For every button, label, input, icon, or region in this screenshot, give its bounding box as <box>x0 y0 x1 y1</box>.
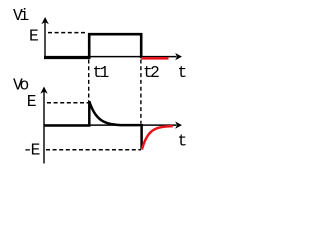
Vi t-axis arrowhead <box>175 53 182 60</box>
Vo waveform: zero, positive spike at t1 with exponential decay, zero, negative step at t2 <box>44 101 142 149</box>
dashed vertical at t2 <box>140 60 142 124</box>
dashed -E level line (Vo) <box>46 149 141 151</box>
Vi vertical axis <box>44 22 46 58</box>
svg-text:t: t <box>178 63 188 82</box>
Vi vertical axis arrowhead <box>41 17 48 24</box>
dashed E level line (Vo) <box>47 102 89 104</box>
svg-text:E: E <box>27 92 37 111</box>
svg-text:t1: t1 <box>93 63 109 82</box>
dashed vertical at t1 <box>88 60 90 102</box>
svg-text:t2: t2 <box>143 63 159 82</box>
Vi red segment after t2 (Vi=0) <box>141 57 168 60</box>
Vo vertical axis arrowhead <box>40 87 47 94</box>
Vo vertical axis <box>43 91 45 164</box>
dashed E level line (Vi) <box>48 32 87 34</box>
Vo horizontal axis (t axis) <box>44 124 177 126</box>
Vo t-axis arrowhead <box>175 122 182 129</box>
svg-text:t: t <box>178 132 188 151</box>
Vo red recovery curve after t2 (exponential from -E back to 0) <box>142 126 173 149</box>
svg-text:-E: -E <box>23 141 40 160</box>
svg-text:E: E <box>29 27 39 46</box>
Vi horizontal axis (t axis) <box>44 56 177 58</box>
Vi waveform: 0 until t1, pulse E from t1 to t2 <box>44 34 141 58</box>
